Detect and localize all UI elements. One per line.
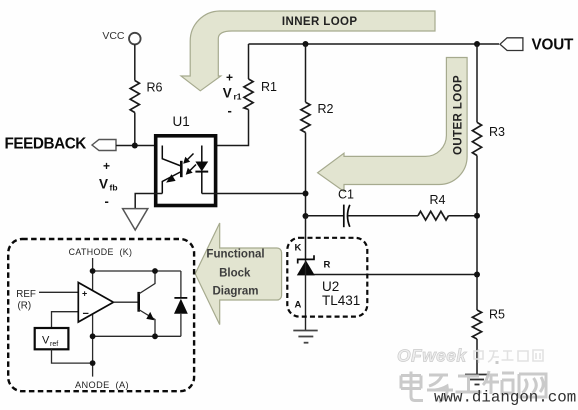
svg-text:V: V	[42, 335, 50, 347]
wire R3 top	[476, 44, 478, 122]
resistor R3	[472, 122, 505, 155]
resistor R6	[130, 81, 162, 113]
Vref box	[35, 328, 69, 349]
opto light arrow 1	[183, 154, 193, 164]
wire R5 to ground	[476, 339, 478, 374]
svg-text:-: -	[228, 103, 232, 118]
opto light arrow 2	[186, 165, 196, 175]
watermark faint text after OFweek	[474, 349, 543, 363]
wire R2 top	[305, 44, 307, 102]
svg-text:R4: R4	[430, 193, 446, 207]
resistor R4	[418, 193, 449, 220]
top rail wire	[249, 43, 500, 45]
wire R6 to feedback node	[134, 113, 136, 146]
svg-text:R3: R3	[489, 125, 505, 139]
resistor R1	[244, 79, 277, 110]
REF wire	[39, 291, 78, 293]
svg-text:U1: U1	[173, 114, 190, 129]
svg-text:Block: Block	[219, 267, 251, 279]
diode branch vertical	[180, 271, 182, 298]
svg-text:ref: ref	[50, 341, 58, 348]
svg-text:V: V	[223, 85, 232, 100]
node R pin/rail	[474, 272, 480, 278]
VCC terminal	[102, 30, 140, 45]
wire R1 top	[248, 44, 250, 79]
VOUT terminal	[500, 36, 574, 53]
svg-text:ANODE (A): ANODE (A)	[75, 380, 129, 390]
watermark chinese characters	[401, 361, 546, 402]
svg-text:CATHODE (K): CATHODE (K)	[69, 247, 133, 257]
svg-text:A: A	[295, 300, 302, 311]
svg-text:OFweek: OFweek	[397, 346, 467, 366]
wire R1 bottom to opto	[202, 110, 249, 146]
optocoupler U1 box	[156, 136, 216, 206]
anode rail wire	[93, 335, 181, 337]
opto phototransistor	[162, 146, 181, 194]
svg-text:VOUT: VOUT	[532, 36, 575, 53]
svg-text:+: +	[82, 289, 87, 299]
node anode rail left	[90, 333, 96, 339]
node C1 branch	[303, 213, 309, 219]
node cathode rail right	[152, 268, 158, 274]
outer loop arrow	[318, 58, 468, 192]
svg-text:K: K	[295, 243, 302, 254]
svg-text:fb: fb	[110, 183, 118, 193]
wire feedback to opto	[116, 145, 162, 147]
node vref/anode	[90, 360, 96, 366]
op-amp U (error amplifier)	[78, 283, 113, 323]
wire R4 to rail	[449, 215, 478, 217]
FEEDBACK terminal	[5, 136, 117, 153]
svg-text:VCC: VCC	[102, 30, 125, 42]
opto LED	[195, 146, 208, 194]
svg-text:+: +	[103, 159, 110, 173]
svg-text:V: V	[99, 177, 108, 192]
resistor R5	[472, 308, 505, 340]
svg-text:R6: R6	[147, 81, 163, 95]
svg-text:TL431: TL431	[322, 293, 360, 308]
svg-text:−: −	[83, 308, 89, 320]
resistor R2	[301, 102, 334, 133]
functional block dashed box	[8, 239, 194, 391]
svg-text:r1: r1	[234, 91, 242, 101]
TL431 zener symbol U2	[297, 255, 315, 330]
ground (open triangle)	[123, 209, 148, 230]
inner loop arrow	[181, 11, 435, 91]
svg-text:Functional: Functional	[206, 248, 264, 260]
minus input wire	[52, 312, 79, 328]
svg-text:INNER LOOP: INNER LOOP	[282, 16, 358, 28]
right rail wire	[476, 156, 478, 311]
cathode stub wire	[92, 258, 94, 271]
svg-text:FEEDBACK: FEEDBACK	[5, 136, 87, 153]
TL431 R pin wire	[306, 274, 478, 276]
node feedback	[132, 143, 138, 149]
svg-text:-: -	[105, 194, 109, 209]
node cathode rail left	[90, 268, 96, 274]
transistor base wire	[113, 301, 138, 303]
ground below R5	[465, 375, 489, 385]
svg-text:R5: R5	[489, 308, 505, 322]
functional block diagram arrow	[195, 223, 281, 325]
node top R2	[303, 41, 309, 47]
node opto/R2	[303, 191, 309, 197]
label +Vr1-	[223, 70, 242, 118]
svg-text:R2: R2	[318, 102, 334, 116]
wire opto LED to node	[202, 193, 306, 195]
svg-text:Diagram: Diagram	[212, 285, 258, 297]
svg-text:R1: R1	[261, 80, 277, 94]
anode stub vertical	[92, 314, 94, 377]
ground below U2	[293, 331, 317, 343]
op-amp supply stub	[92, 271, 94, 292]
wire VCC to R6	[134, 44, 136, 80]
svg-text:REF: REF	[16, 289, 36, 300]
svg-text:C1: C1	[338, 188, 354, 202]
node top R3	[474, 41, 480, 47]
label +Vfb-	[99, 159, 118, 209]
node R4/rail	[474, 213, 480, 219]
svg-text:www.diangon.com: www.diangon.com	[434, 389, 576, 407]
Vref bottom wire	[52, 349, 93, 363]
svg-text:+: +	[226, 70, 233, 84]
svg-text:R: R	[324, 260, 331, 271]
capacitor C1	[306, 188, 419, 228]
wire opto to ground	[135, 194, 162, 209]
U2 dashed box	[287, 238, 367, 317]
node anode rail right	[152, 333, 158, 339]
svg-text:(R): (R)	[18, 301, 32, 312]
svg-text:U2: U2	[322, 279, 339, 294]
wire R2 bottom	[305, 133, 307, 217]
transistor Q (output)	[139, 271, 155, 336]
cathode rail wire	[93, 270, 181, 272]
svg-text:OUTER LOOP: OUTER LOOP	[453, 75, 465, 155]
diode D (protection)	[174, 298, 188, 336]
wire node to TL431 cathode	[305, 216, 307, 260]
